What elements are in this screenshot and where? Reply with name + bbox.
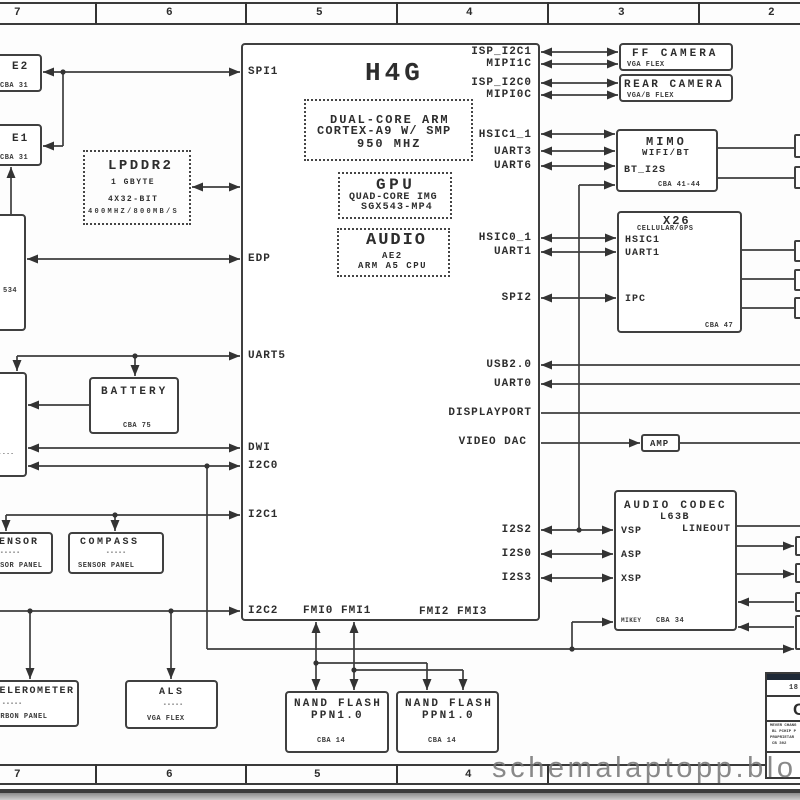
H4G pin SPI2 bbox=[502, 293, 532, 304]
H4G pin ISP_I2C0 bbox=[471, 78, 532, 89]
wire I2C1 drop to compass bbox=[114, 515, 116, 531]
H4G pin MIPI1C bbox=[486, 59, 532, 70]
block BATTERY bbox=[89, 377, 179, 434]
block REAR CAMERA bbox=[619, 74, 733, 102]
right edge connector stub (audio C) bbox=[795, 592, 800, 612]
H4G pin UART6 bbox=[494, 161, 532, 172]
page bottom edge line bbox=[0, 789, 800, 793]
wire codec out 1 bbox=[737, 545, 794, 547]
top border band bbox=[0, 2, 800, 4]
right edge connector stub (X26 ant 1) bbox=[794, 240, 800, 262]
zone number 5 top bbox=[316, 8, 323, 19]
wire FMI A branch horizontal bbox=[316, 662, 427, 664]
right edge connector stub (MIMO antenna 2) bbox=[794, 166, 800, 189]
wire I2S0-ASP bbox=[541, 553, 613, 555]
wire HSIC0_1 bbox=[541, 237, 616, 239]
block H4G SoC bbox=[241, 43, 540, 621]
block E2 bbox=[0, 54, 42, 92]
right edge connector stub (MIMO antenna 1) bbox=[794, 134, 800, 158]
right edge connector stub (X26 ant 2) bbox=[794, 269, 800, 291]
wire audio rail horizontal bbox=[207, 648, 794, 650]
wire I2C1 bbox=[6, 514, 240, 516]
wire FMI B branch horizontal bbox=[354, 669, 463, 671]
block AUDIO CODEC bbox=[614, 490, 737, 631]
right edge connector stub (audio A) bbox=[795, 536, 800, 556]
wire X26 stub 3 bbox=[742, 307, 794, 309]
wire I2C2 bbox=[0, 610, 240, 612]
wire UART6 bbox=[541, 165, 615, 167]
zone number 2 top bbox=[768, 8, 775, 19]
wire ISP_I2C0 bbox=[541, 82, 618, 84]
wire battery to dock bbox=[28, 404, 89, 406]
wire DWI bbox=[28, 447, 240, 449]
H4G pin I2C1 bbox=[248, 510, 278, 521]
zone number 7 top bbox=[14, 8, 21, 19]
wire UART0 bbox=[541, 383, 800, 385]
wire audio rail vertical bbox=[206, 466, 208, 649]
right edge connector stub (audio D) bbox=[795, 615, 800, 650]
H4G pin UART0 bbox=[494, 379, 532, 390]
block LPDDR2 bbox=[83, 150, 191, 225]
zone number 4 top bbox=[466, 8, 473, 19]
wire X26 stub 1 bbox=[742, 249, 794, 251]
H4G pin I2S0 bbox=[502, 549, 532, 560]
wire UART1 bbox=[541, 251, 616, 253]
wire I2S3-XSP bbox=[541, 577, 613, 579]
H4G pin FMI0 FMI1 bbox=[303, 606, 371, 617]
junction FMI A branch bbox=[313, 660, 318, 665]
H4G pin HSIC1_1 bbox=[479, 130, 532, 141]
H4G GPU dashed block bbox=[338, 172, 452, 219]
H4G pin FMI2 FMI3 bbox=[419, 607, 487, 618]
wire I2C2 drop to accelerometer bbox=[29, 611, 31, 679]
watermark schemalaptopp.blo bbox=[492, 752, 797, 785]
junction FMI B branch bbox=[351, 667, 356, 672]
junction BT_I2S VSP bbox=[576, 527, 581, 532]
H4G pin VIDEO DAC bbox=[459, 437, 527, 448]
block E1 bbox=[0, 124, 42, 166]
zone number 7 bottom bbox=[14, 770, 21, 781]
H4G pin UART1 bbox=[494, 247, 532, 258]
wire USB2.0 bbox=[541, 364, 800, 366]
page bottom shadow bbox=[0, 793, 800, 800]
zone number 6 top bbox=[166, 8, 173, 19]
wire I2C2 drop to ALS bbox=[170, 611, 172, 679]
block FF CAMERA bbox=[619, 43, 733, 71]
wire VIDEO DAC to AMP bbox=[541, 442, 640, 444]
junction I2C0 rail bbox=[204, 463, 209, 468]
zone number 4 bottom bbox=[465, 770, 472, 781]
wire BT_I2S to MIMO bbox=[579, 184, 615, 186]
wire codec out 2 bbox=[737, 573, 794, 575]
right edge connector stub (X26 ant 3) bbox=[794, 297, 800, 319]
wire HSIC1_1 bbox=[541, 133, 615, 135]
wire X26 stub 2 bbox=[742, 278, 794, 280]
wire MIMO antenna stub 2 bbox=[718, 177, 794, 179]
H4G pin I2S3 bbox=[502, 573, 532, 584]
H4G pin DWI bbox=[248, 443, 271, 454]
wire AMP out bbox=[680, 442, 800, 444]
block COMPASS bbox=[68, 532, 164, 574]
block X26 CELLULAR/GPS bbox=[617, 211, 742, 333]
H4G pin EDP bbox=[248, 254, 271, 265]
wire I2S2-VSP bbox=[541, 529, 613, 531]
wire audio rail to codec bbox=[572, 621, 613, 623]
zone number 5 bottom bbox=[314, 770, 321, 781]
block AMP bbox=[641, 434, 680, 452]
H4G AUDIO dashed block bbox=[337, 228, 450, 277]
wire audio rail riser bbox=[571, 622, 573, 649]
H4G pin I2S2 bbox=[502, 525, 532, 536]
block NAND FLASH 2 bbox=[396, 691, 499, 753]
wire SPI1 branch to E1 bbox=[43, 145, 63, 147]
right edge connector stub (audio B) bbox=[795, 563, 800, 583]
junction SPI1 bbox=[60, 69, 65, 74]
wire LPDDR2-H4G bbox=[192, 186, 240, 188]
wire SPI1 E2-H4G bbox=[43, 71, 240, 73]
block dock connector (cut) bbox=[0, 372, 27, 477]
wire MIPI0C bbox=[541, 94, 618, 96]
H4G pin ISP_I2C1 bbox=[471, 47, 532, 58]
wire FMI A vertical bbox=[315, 622, 317, 690]
wire DISPLAYPORT bbox=[541, 412, 800, 414]
wire EDP bbox=[27, 258, 240, 260]
H4G pin SPI1 bbox=[248, 67, 278, 78]
wire FMI B vertical bbox=[353, 622, 355, 690]
wire codec in 1 bbox=[738, 601, 794, 603]
zone number 3 top bbox=[618, 8, 625, 19]
block LCD connector (cut) bbox=[0, 214, 26, 331]
H4G pin USB2.0 bbox=[486, 360, 532, 371]
wire codec in 2 bbox=[738, 626, 794, 628]
junction I2C2 accel bbox=[27, 608, 32, 613]
junction audio rail riser bbox=[569, 646, 574, 651]
H4G pin UART5 bbox=[248, 351, 286, 362]
junction I2C1 compass bbox=[112, 512, 117, 517]
wire MIPI1C bbox=[541, 63, 618, 65]
wire FMI B branch drop bbox=[462, 670, 464, 690]
wire UART5 drop to battery bbox=[134, 356, 136, 376]
wire UART3 bbox=[541, 150, 615, 152]
wire ISP_I2C1 bbox=[541, 51, 618, 53]
junction I2C2 ALS bbox=[168, 608, 173, 613]
block SENSOR (cut) bbox=[0, 532, 53, 574]
block MIMO WIFI/BT bbox=[616, 129, 718, 192]
H4G pin MIPI0C bbox=[486, 90, 532, 101]
wire SPI1 branch vertical bbox=[62, 72, 64, 146]
block ACCELEROMETER (cut) bbox=[0, 680, 79, 727]
zone number 6 bottom bbox=[166, 770, 173, 781]
wire I2C1 drop to sensor bbox=[5, 515, 7, 531]
H4G pin DISPLAYPORT bbox=[448, 408, 532, 419]
block ALS bbox=[125, 680, 218, 729]
wire BT_I2S vertical bbox=[578, 185, 580, 530]
block NAND FLASH 1 bbox=[285, 691, 389, 753]
wire FMI A branch drop bbox=[426, 663, 428, 690]
wire SPI2-IPC bbox=[541, 297, 616, 299]
H4G CPU dashed block bbox=[304, 99, 473, 161]
bottom border band bbox=[0, 764, 800, 766]
wire LCD to E1 bbox=[10, 167, 12, 214]
H4G pin HSIC0_1 bbox=[479, 233, 532, 244]
H4G pin I2C0 bbox=[248, 461, 278, 472]
wire I2C0 bbox=[28, 465, 240, 467]
wire LINEOUT bbox=[737, 525, 800, 527]
junction UART5 battery bbox=[132, 353, 137, 358]
wire UART5 horizontal bbox=[17, 355, 240, 357]
H4G pin UART3 bbox=[494, 147, 532, 158]
H4G pin I2C2 bbox=[248, 606, 278, 617]
title block bbox=[765, 672, 800, 779]
wire UART5 drop to dock bbox=[16, 356, 18, 371]
wire MIMO antenna stub 1 bbox=[718, 147, 794, 149]
